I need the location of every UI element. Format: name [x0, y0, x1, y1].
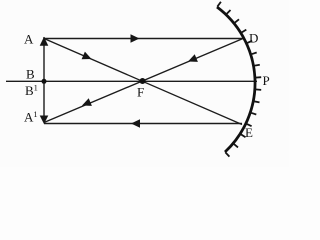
svg-text:F: F — [137, 85, 144, 100]
svg-text:P: P — [263, 73, 270, 88]
svg-text:D: D — [249, 31, 258, 46]
svg-text:E: E — [245, 125, 253, 140]
svg-text:B: B — [26, 67, 35, 82]
svg-text:A: A — [24, 32, 34, 47]
